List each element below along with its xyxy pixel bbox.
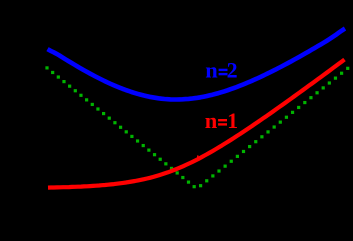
svg-text:n: n <box>205 58 218 83</box>
label n=2 (blue) <box>205 58 237 83</box>
small joint notch on n=1 curve <box>197 155 199 160</box>
svg-text:1: 1 <box>227 108 238 133</box>
label n=1 (red) <box>205 108 238 133</box>
curve n=2 (blue) <box>48 29 346 100</box>
svg-text:2: 2 <box>227 58 238 83</box>
green dotted asymptote, right branch of V <box>199 67 349 188</box>
curve n=1 (red) <box>48 60 345 188</box>
green dotted asymptote, left branch of V <box>45 66 195 188</box>
svg-text:n: n <box>205 108 218 133</box>
